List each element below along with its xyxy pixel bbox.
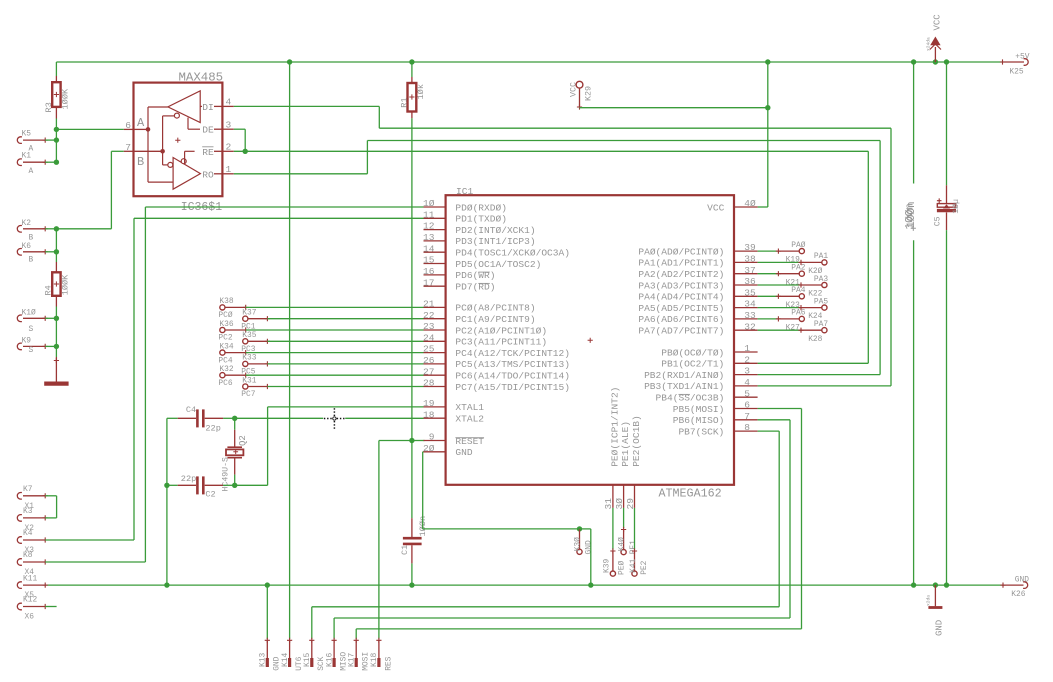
svg-text:DE: DE <box>202 125 214 136</box>
svg-text:x24da: x24da <box>926 37 932 51</box>
crystal Q2 <box>226 418 243 485</box>
junction B internal <box>160 149 165 154</box>
svg-text:1ØØK: 1ØØK <box>61 274 71 295</box>
label K27 <box>786 324 800 333</box>
connector K38 (PC0) <box>220 305 424 310</box>
pin 34 IC1 (PA5(AD5/PCINT5)) <box>638 299 757 314</box>
label K5 <box>22 129 32 138</box>
svg-text:PCØ(A8/PCINT8): PCØ(A8/PCINT8) <box>455 303 535 314</box>
cursor crosshair <box>324 408 345 429</box>
svg-text:K1Ø: K1Ø <box>22 309 36 318</box>
capacitor C1 <box>403 518 422 563</box>
label PE0 <box>618 561 627 575</box>
svg-text:23: 23 <box>423 321 435 332</box>
connector K35 (PC3) <box>243 339 424 344</box>
svg-text:PC5(A13/TMS/PCINT13): PC5(A13/TMS/PCINT13) <box>455 359 570 370</box>
origin cross MAX485 <box>175 138 180 143</box>
connector K19 (PA0) <box>758 249 805 254</box>
svg-text:K1: K1 <box>22 152 32 161</box>
wire S vertical <box>55 318 57 357</box>
label 100K (R3) <box>61 88 71 109</box>
label PE1 <box>629 540 638 554</box>
svg-text:12: 12 <box>423 221 435 232</box>
label K10 <box>22 309 36 318</box>
connector K32 (PC6) <box>220 373 424 378</box>
wire MOSI net <box>356 409 801 639</box>
power GND arrow <box>928 585 942 607</box>
svg-text:PA4: PA4 <box>791 286 805 295</box>
svg-text:36: 36 <box>744 276 756 287</box>
pin 21 IC1 (PC0(A8/PCINT8)) <box>423 299 536 314</box>
junction GND/C6 <box>911 582 916 587</box>
svg-text:PC6(A14/TDO/PCINT14): PC6(A14/TDO/PCINT14) <box>455 371 570 382</box>
pin 37 IC1 (PA2(AD2/PCINT2)) <box>638 265 757 280</box>
svg-text:A: A <box>137 116 145 130</box>
wire TXD0 net <box>134 218 424 540</box>
svg-text:PA3: PA3 <box>814 275 828 284</box>
svg-text:9: 9 <box>429 432 435 443</box>
svg-text:PC2(A1Ø/PCINT1Ø): PC2(A1Ø/PCINT1Ø) <box>455 325 547 336</box>
svg-text:RO: RO <box>202 169 214 180</box>
connector K22 (PA3) <box>758 282 827 287</box>
pin 1 IC1 (PB0(OC0/T0)) <box>661 343 757 358</box>
label PA6 <box>791 309 805 318</box>
wire K30 to GND rail <box>580 529 591 585</box>
connector K10 <box>17 315 56 322</box>
pin 27 IC1 (PC6(A14/TDO/PCINT14)) <box>423 366 570 381</box>
svg-text:B: B <box>137 155 144 169</box>
svg-text:6: 6 <box>744 400 750 411</box>
wire C2/C4 to GND rail <box>166 485 168 585</box>
label SCK (K15) <box>317 656 326 670</box>
label PA3 <box>814 275 828 284</box>
svg-text:PC2: PC2 <box>218 334 232 343</box>
svg-text:15: 15 <box>423 255 435 266</box>
svg-text:PA4(AD4/PCINT4): PA4(AD4/PCINT4) <box>638 292 724 303</box>
svg-text:B: B <box>29 256 34 265</box>
junction +5V/UT6 <box>287 59 292 64</box>
power VCC arrow <box>930 37 941 63</box>
wire UT6 vertical <box>289 62 291 639</box>
label 6 <box>125 120 131 131</box>
svg-text:C2: C2 <box>205 490 215 500</box>
label K33 <box>242 354 256 363</box>
pin 30 IC1 (PE1(ALE)) <box>614 421 631 510</box>
label X5 <box>25 591 35 600</box>
label IC36$1 <box>181 201 223 214</box>
capacitor C5 <box>937 62 956 585</box>
pin 2 IC1 (PB1(OC2/T1)) <box>661 354 757 369</box>
svg-text:PB6(MISO): PB6(MISO) <box>673 415 725 426</box>
svg-text:34: 34 <box>744 299 756 310</box>
svg-text:28: 28 <box>423 378 435 389</box>
svg-text:4: 4 <box>226 97 232 108</box>
label 22p (C4) <box>205 423 220 433</box>
svg-text:IC1: IC1 <box>456 186 473 197</box>
label X2 <box>25 524 35 533</box>
svg-text:K7: K7 <box>23 485 33 494</box>
svg-text:K15: K15 <box>303 653 312 667</box>
svg-text:K32: K32 <box>219 365 233 374</box>
pin 18 IC1 (XTAL2) <box>423 409 484 424</box>
wire K8 to RXD0 <box>45 561 145 563</box>
svg-text:PA7: PA7 <box>814 320 828 329</box>
label K22 <box>808 290 822 299</box>
label PC5 <box>241 368 255 377</box>
svg-text:DI: DI <box>202 102 214 113</box>
svg-text:1: 1 <box>744 343 750 354</box>
wire K4 to TXD0 <box>45 539 134 541</box>
connector K17 (MOSI) <box>354 638 359 667</box>
connector K15 (SCK) <box>309 638 314 667</box>
label B (K2) <box>29 233 34 242</box>
label PC1 <box>241 322 255 331</box>
junction GND/K13 <box>265 582 270 587</box>
pin 33 IC1 (PA6(AD6/PCINT6)) <box>638 310 757 325</box>
label K18 <box>370 653 379 667</box>
junction GND/x166 <box>164 582 169 587</box>
origin cross C6 ghost <box>911 226 916 231</box>
svg-text:HC49U-S: HC49U-S <box>222 457 231 491</box>
svg-text:K39: K39 <box>603 559 612 573</box>
svg-text:6: 6 <box>125 120 131 131</box>
connector K25 (+5V) <box>1000 53 1030 77</box>
label K23 <box>786 301 800 310</box>
label K35 <box>242 331 256 340</box>
wire A net to MAX485 pin6 <box>56 128 123 130</box>
label K29 <box>583 86 593 101</box>
wire B vertical <box>55 229 57 262</box>
label C5 <box>933 216 942 226</box>
connector K2 <box>17 226 56 233</box>
connector K29 (VCC) <box>576 81 583 109</box>
resistor R1 <box>408 62 417 118</box>
label PA4 <box>791 286 805 295</box>
svg-text:33: 33 <box>744 310 756 321</box>
label K13 <box>259 653 268 667</box>
svg-text:GND: GND <box>585 540 594 554</box>
junction +5V/R1 <box>409 59 414 64</box>
label K4 <box>23 529 33 538</box>
wire GND pin20 <box>423 452 580 529</box>
label PA0 <box>791 241 805 250</box>
wire K7-K3 loop <box>45 496 56 518</box>
svg-text:24: 24 <box>423 332 435 343</box>
svg-text:K25: K25 <box>1009 68 1023 77</box>
wire B net <box>56 151 123 229</box>
label X6 <box>25 613 35 622</box>
svg-text:K14: K14 <box>281 653 290 667</box>
svg-text:PA2: PA2 <box>791 264 805 273</box>
label Q2 <box>238 435 248 446</box>
connector K12 (X6) <box>17 603 47 610</box>
pin 10 IC1 (PD0(RXD0)) <box>423 198 507 213</box>
svg-text:PBØ(OCØ/TØ): PBØ(OCØ/TØ) <box>661 347 724 358</box>
svg-text:R1: R1 <box>400 97 410 107</box>
wire K12 stub <box>45 606 56 608</box>
label PC0 <box>218 311 232 320</box>
svg-text:8: 8 <box>744 422 750 433</box>
wire R1 to C1 <box>411 118 413 518</box>
capacitor C2 <box>167 476 235 494</box>
pin 38 IC1 (PA1(AD1/PCINT1)) <box>638 254 757 269</box>
label IC1 <box>456 186 473 197</box>
wire C1 to GND rail <box>411 563 413 585</box>
svg-text:RE: RE <box>202 147 214 158</box>
label K7 <box>23 485 33 494</box>
svg-text:PB3(TXD1/AIN1): PB3(TXD1/AIN1) <box>644 381 724 392</box>
svg-text:19: 19 <box>423 398 435 409</box>
pin 4 IC1 (PB3(TXD1/AIN1)) <box>644 377 758 392</box>
svg-text:XTAL2: XTAL2 <box>455 414 484 425</box>
svg-text:PE2(OC1B): PE2(OC1B) <box>631 415 642 467</box>
label PC2 <box>218 334 232 343</box>
label PC7 <box>241 390 255 399</box>
svg-text:PD3(INT1/ICP3): PD3(INT1/ICP3) <box>455 236 535 247</box>
junction K1 <box>54 160 59 165</box>
svg-text:K41: K41 <box>629 558 638 572</box>
svg-text:1Øµ: 1Øµ <box>951 199 961 214</box>
pin 11 IC1 (PD1(TXD0)) <box>423 209 507 224</box>
svg-text:K35: K35 <box>242 331 256 340</box>
svg-text:26: 26 <box>423 355 435 366</box>
label B (K6) <box>29 256 34 265</box>
wire A internal <box>148 107 173 182</box>
label tiny gnd <box>925 595 931 606</box>
connector K30 (GND) <box>577 529 582 555</box>
svg-text:PC7(A15/TDI/PCINT15): PC7(A15/TDI/PCINT15) <box>455 382 570 393</box>
label PA1 <box>814 252 828 261</box>
svg-text:K9: K9 <box>22 337 32 346</box>
svg-text:ATMEGA162: ATMEGA162 <box>659 486 722 500</box>
label K9 <box>22 337 32 346</box>
svg-text:K6: K6 <box>22 242 32 251</box>
pin 24 IC1 (PC3(A11/PCINT11)) <box>423 332 547 347</box>
svg-text:S: S <box>29 325 34 334</box>
pin 7 (B) MAX485 <box>124 150 163 152</box>
svg-text:32: 32 <box>744 321 756 332</box>
svg-text:PB7(SCK): PB7(SCK) <box>678 426 724 437</box>
svg-text:3: 3 <box>744 366 750 377</box>
connector K3 (X2) <box>17 515 48 522</box>
svg-text:1Ø: 1Ø <box>423 198 435 209</box>
connector K39 (PE0) <box>610 508 615 576</box>
svg-text:PD4(TOSC1/XCKØ/OC3A): PD4(TOSC1/XCKØ/OC3A) <box>455 248 570 259</box>
svg-text:X6: X6 <box>25 613 35 622</box>
connector K20 (PA1) <box>758 260 827 265</box>
svg-text:38: 38 <box>744 254 756 265</box>
label A <box>137 116 145 130</box>
svg-text:PEØ(ICP1/INT2): PEØ(ICP1/INT2) <box>609 387 620 467</box>
svg-text:K8: K8 <box>23 551 33 560</box>
svg-text:18: 18 <box>423 409 435 420</box>
label 100n (C1) <box>418 516 428 537</box>
connector K23 (PA4) <box>758 294 805 299</box>
label K16 <box>325 653 334 667</box>
label MISO (K16) <box>340 652 349 671</box>
svg-text:K4Ø: K4Ø <box>618 537 627 551</box>
pin 25 IC1 (PC4(A12/TCK/PCINT12)) <box>423 344 570 359</box>
svg-text:K12: K12 <box>23 596 37 605</box>
svg-text:VCC: VCC <box>933 14 943 31</box>
svg-text:K13: K13 <box>259 653 268 667</box>
wire C6 lower <box>913 240 915 585</box>
junction K9 <box>54 344 59 349</box>
label K15 <box>303 653 312 667</box>
svg-text:17: 17 <box>423 277 434 288</box>
svg-text:14: 14 <box>423 243 435 254</box>
label 22p (C2) <box>181 474 196 484</box>
junction A/R3 <box>54 127 59 132</box>
label MOSI (K17) <box>362 652 371 671</box>
label PA7 <box>814 320 828 329</box>
svg-text:PA6: PA6 <box>791 309 805 318</box>
connector K7 (X1) <box>17 493 48 500</box>
junction GND/arrow <box>933 582 938 587</box>
label K41 <box>629 558 638 572</box>
label K1 <box>22 152 32 161</box>
svg-text:MAX485: MAX485 <box>179 71 224 85</box>
junction GND rail x590 <box>588 582 593 587</box>
svg-text:PE1(ALE): PE1(ALE) <box>620 421 631 467</box>
svg-text:GND: GND <box>1015 576 1029 585</box>
pin 16 IC1 (PD6(WR)) <box>423 266 495 281</box>
label K40 <box>618 537 627 551</box>
svg-text:PB5(MOSI): PB5(MOSI) <box>673 404 725 415</box>
svg-text:K11: K11 <box>23 574 37 583</box>
label 1 <box>226 164 232 175</box>
pin 6 IC1 (PB5(MOSI)) <box>673 400 758 415</box>
svg-text:2Ø: 2Ø <box>423 443 435 454</box>
wire DE to RE <box>234 129 245 151</box>
connector K40 (PE1) <box>621 508 626 555</box>
wire SCK net <box>312 431 779 639</box>
label 10k <box>416 84 426 99</box>
pin 31 IC1 (PE0(ICP1/INT2)) <box>603 387 620 510</box>
svg-text:Q2: Q2 <box>238 435 248 446</box>
junction +5V/C5 <box>944 59 949 64</box>
label K28 <box>808 335 822 344</box>
svg-text:PC1(A9/PCINT9): PC1(A9/PCINT9) <box>455 314 535 325</box>
resistor R3 <box>52 62 60 129</box>
wire DI net <box>234 106 891 386</box>
label X3 <box>25 546 35 555</box>
label ATMEGA162 <box>659 486 722 500</box>
junction DE/RE <box>243 149 248 154</box>
label PE2 <box>640 560 649 574</box>
junction GND/C5 <box>944 582 949 587</box>
junction XTAL1/C2 <box>232 483 237 488</box>
wire RO net <box>234 141 880 375</box>
label A (K1) <box>29 167 34 176</box>
bubble driver output B <box>174 113 179 118</box>
label UT6 (K14) <box>295 656 304 670</box>
wire RESET to K18 <box>379 441 412 639</box>
connector K37 (PC1) <box>243 316 424 321</box>
svg-text:PA1: PA1 <box>814 252 828 261</box>
label K37 <box>242 309 256 318</box>
label 10u <box>951 199 961 214</box>
pin 39 IC1 (PA0(AD0/PCINT0)) <box>638 242 757 257</box>
svg-text:PC3(A11/PCINT11): PC3(A11/PCINT11) <box>455 337 547 348</box>
pin 28 IC1 (PC7(A15/TDI/PCINT15)) <box>423 378 570 393</box>
label X1 <box>25 502 35 511</box>
svg-text:PA5(AD5/PCINT5): PA5(AD5/PCINT5) <box>638 303 724 314</box>
junction K30 <box>577 526 582 531</box>
connector K36 (PC2) <box>220 327 424 332</box>
wire VCC to pin40 <box>758 206 768 208</box>
label K8 <box>23 551 33 560</box>
svg-text:22p: 22p <box>205 423 220 433</box>
svg-text:K5: K5 <box>22 129 32 138</box>
junction RESET <box>409 438 414 443</box>
label VCC (arrow) <box>933 14 943 31</box>
connector K9 <box>17 343 56 350</box>
svg-text:7: 7 <box>744 411 750 422</box>
label DI <box>202 102 214 113</box>
label K38 <box>219 297 233 306</box>
IC IC1 box <box>446 195 734 485</box>
pin 23 IC1 (PC2(A10/PCINT10)) <box>423 321 547 336</box>
label HC49U-S <box>222 457 231 491</box>
pin 6 (A) MAX485 <box>124 128 148 130</box>
pin 5 IC1 (PB4(SS/OC3B)) <box>656 388 758 403</box>
svg-text:B: B <box>29 233 34 242</box>
svg-text:1Øk: 1Øk <box>416 84 426 99</box>
svg-text:K36: K36 <box>219 320 233 329</box>
pin 22 IC1 (PC1(A9/PCINT9)) <box>423 310 536 325</box>
svg-text:PC7: PC7 <box>241 390 255 399</box>
pin 1 (RO) MAX485 <box>214 173 234 175</box>
pin 15 IC1 (PD5(OC1A/TOSC2)) <box>423 255 541 270</box>
label K12 <box>23 596 37 605</box>
label K17 <box>348 653 357 667</box>
junction K10 <box>54 316 59 321</box>
svg-text:22p: 22p <box>181 474 196 484</box>
pin 3 IC1 (PB2(RXD1/AIN0)) <box>644 366 758 381</box>
label 4 <box>226 97 232 108</box>
svg-text:22: 22 <box>423 310 435 321</box>
wire DE internal <box>188 118 200 130</box>
svg-text:PA5: PA5 <box>814 297 828 306</box>
connector K27 (PA6) <box>758 316 805 321</box>
junction K5 <box>54 137 59 142</box>
svg-text:PB4(SS/OC3B): PB4(SS/OC3B) <box>656 393 725 404</box>
junction +5V/C6 <box>911 59 916 64</box>
svg-text:PD1(TXDØ): PD1(TXDØ) <box>455 214 507 225</box>
svg-text:31: 31 <box>603 498 614 510</box>
label K14 <box>281 653 290 667</box>
connector K18 (RES) <box>376 638 381 667</box>
connector K33 (PC5) <box>243 361 424 366</box>
pin 9 IC1 (RESET) <box>424 432 485 447</box>
label K39 <box>603 559 612 573</box>
pin 3 (DE) MAX485 <box>214 128 234 130</box>
svg-text:K37: K37 <box>242 309 256 318</box>
svg-text:PEØ: PEØ <box>618 561 627 575</box>
svg-text:29: 29 <box>625 498 636 510</box>
svg-text:PC4(A12/TCK/PCINT12): PC4(A12/TCK/PCINT12) <box>455 348 570 359</box>
wire A vertical <box>55 129 57 162</box>
svg-text:GND: GND <box>934 620 944 636</box>
label K20 <box>808 267 822 276</box>
svg-text:K16: K16 <box>325 653 334 667</box>
svg-text:2: 2 <box>226 141 232 152</box>
junction XTAL2/C4 <box>232 416 237 421</box>
svg-text:25: 25 <box>423 344 435 355</box>
junction VCC vertical <box>765 105 770 110</box>
svg-text:2: 2 <box>744 354 750 365</box>
